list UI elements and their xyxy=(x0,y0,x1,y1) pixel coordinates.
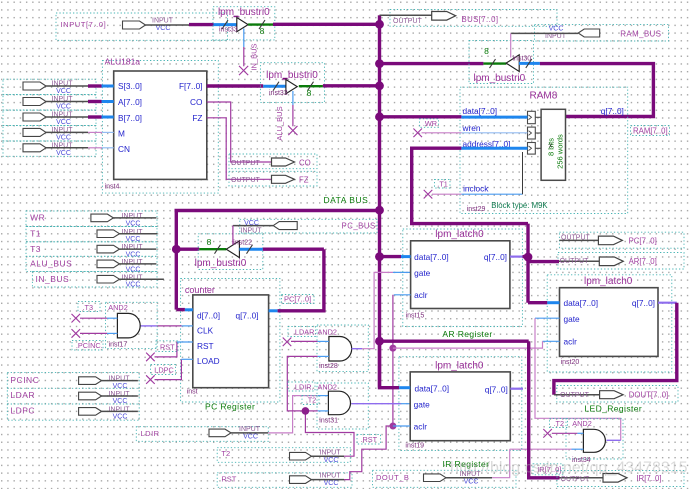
svg-text:gate: gate xyxy=(414,268,431,278)
svg-text:Block type: M9K: Block type: M9K xyxy=(491,201,548,210)
svg-text:gate: gate xyxy=(414,400,431,410)
input pin ALU row 3 xyxy=(3,110,96,126)
wire T2 to junction xyxy=(305,411,354,456)
wire inst34 input from DOUT_B xyxy=(510,448,584,450)
svg-text:q[7..0]: q[7..0] xyxy=(484,252,507,262)
svg-text:DOUT_B: DOUT_B xyxy=(376,473,409,482)
bus DATA BUS horizontal xyxy=(175,195,380,210)
latch block lpm_latch0 inst20 LED register xyxy=(547,275,672,372)
wire inst22 output 8-bit xyxy=(176,237,226,254)
wire DOUT_B to inst34 xyxy=(492,449,510,478)
wire inst34 output xyxy=(606,439,620,441)
bus DATA BUS vertical left xyxy=(175,211,178,310)
svg-text:.T2: .T2 xyxy=(306,396,317,405)
input pin T2 xyxy=(217,448,350,464)
ALU block ALU181a inst4 xyxy=(102,57,218,194)
svg-text:ALU181a: ALU181a xyxy=(105,57,141,67)
node junction T2 xyxy=(302,407,310,415)
wire LDIR to inst31 xyxy=(268,396,328,433)
svg-text:OUTPUT: OUTPUT xyxy=(231,177,261,184)
output pin PC[7..0] xyxy=(559,232,684,248)
wire bustri inst33 enable with IN_BUS label xyxy=(239,29,259,76)
node junction top bus xyxy=(375,20,384,29)
wire counter q to PC_BUS xyxy=(269,249,324,311)
svg-text:8: 8 xyxy=(307,88,312,98)
svg-text:q[7..0]: q[7..0] xyxy=(236,310,259,320)
svg-text:FZ: FZ xyxy=(299,176,309,185)
svg-text:OUTPUT: OUTPUT xyxy=(560,392,590,399)
svg-text:aclr: aclr xyxy=(414,290,428,300)
svg-text:CO: CO xyxy=(299,158,311,167)
svg-text:aclr: aclr xyxy=(414,422,428,432)
wire inst31 input T2 xyxy=(305,410,328,412)
svg-text:data[7..0]: data[7..0] xyxy=(415,384,450,394)
svg-text:ALU_BUS: ALU_BUS xyxy=(275,106,284,140)
counter block PC register inst xyxy=(181,279,280,403)
node junction DATA BUS xyxy=(375,206,384,215)
wire inst22 input from PC_BUS xyxy=(239,245,324,254)
wire RST vertical net xyxy=(392,295,394,426)
svg-text:T3: T3 xyxy=(30,244,41,254)
node junction AR data xyxy=(375,252,384,261)
output pin CO xyxy=(229,154,317,169)
svg-text:VCC: VCC xyxy=(56,134,71,141)
svg-text:lpm_bustri0: lpm_bustri0 xyxy=(195,258,247,269)
input pin T3 xyxy=(26,242,157,259)
wire IR data from bus xyxy=(380,341,411,388)
svg-text:lpm_bustri0: lpm_bustri0 xyxy=(474,73,526,84)
wire ALU input row 5 xyxy=(88,147,114,149)
svg-text:OUTPUT: OUTPUT xyxy=(560,258,590,265)
AND gate AND2 inst28 xyxy=(288,325,368,372)
svg-text:LDPC: LDPC xyxy=(10,406,35,416)
svg-text:inst4: inst4 xyxy=(105,184,120,191)
wire bustri2 enable with ALU_BUS label xyxy=(275,91,298,141)
svg-text:PCINC: PCINC xyxy=(10,375,39,385)
svg-text:IN_BUS: IN_BUS xyxy=(250,43,259,70)
svg-text:INPUT: INPUT xyxy=(122,229,144,236)
svg-text:VCC: VCC xyxy=(113,383,128,390)
svg-text:VCC: VCC xyxy=(126,266,141,273)
svg-text:counter: counter xyxy=(185,285,215,295)
wire bustri3 input blue xyxy=(519,59,540,68)
svg-text:VCC: VCC xyxy=(126,282,141,289)
bus wire to junction xyxy=(273,23,380,26)
svg-text:OUTPUT: OUTPUT xyxy=(393,18,423,25)
svg-text:A[7..0]: A[7..0] xyxy=(118,97,142,107)
svg-text:PC Register: PC Register xyxy=(205,401,255,411)
svg-text:RST: RST xyxy=(160,343,175,352)
bus AR output vertical xyxy=(526,224,529,303)
bus wire bustri3 to RAM q xyxy=(540,64,654,117)
svg-text:inst28: inst28 xyxy=(319,363,338,370)
tri-state buffer lpm_bustri0 inst33 xyxy=(213,7,275,40)
latch block lpm_latch0 inst19 IR register xyxy=(399,357,522,451)
wire bustri3 enable xyxy=(510,33,512,57)
wire wren with WR label xyxy=(413,119,527,137)
AND gate AND2 inst31 xyxy=(288,382,368,429)
input pin RST xyxy=(217,473,352,488)
wire inclock with T1 label xyxy=(424,152,523,199)
svg-text:INPUT: INPUT xyxy=(122,213,144,220)
svg-text:PC[7..0]: PC[7..0] xyxy=(284,294,311,303)
node junction RAM data xyxy=(375,112,384,121)
svg-text:lpm_latch0: lpm_latch0 xyxy=(435,361,484,372)
svg-text:RAM[7..0]: RAM[7..0] xyxy=(633,126,668,135)
svg-text:F[7..0]: F[7..0] xyxy=(179,81,203,91)
wire LED aclr from RST net xyxy=(393,341,560,348)
wire counter LOAD with LDPC label xyxy=(146,359,193,384)
label PC Register xyxy=(205,401,255,411)
svg-text:inclock: inclock xyxy=(463,183,489,193)
output pin BUS[7..0] xyxy=(380,10,558,27)
svg-text:.PCINC.: .PCINC. xyxy=(76,341,103,350)
wire bustri inst33 output 8-bit xyxy=(248,20,273,36)
svg-text:RST: RST xyxy=(221,474,236,483)
input pin IN_BUS xyxy=(32,272,164,289)
svg-text:LDIR: LDIR xyxy=(141,429,160,438)
svg-text:inst19: inst19 xyxy=(405,443,424,450)
svg-text:VCC: VCC xyxy=(324,457,339,464)
wire inst28 input LDAR xyxy=(283,338,329,347)
wire AR q to junction xyxy=(510,256,528,258)
wire bustri2 output 8-bit xyxy=(299,82,380,98)
svg-text:inst15: inst15 xyxy=(406,313,425,320)
svg-text:INPUT: INPUT xyxy=(320,449,342,456)
svg-text:T2: T2 xyxy=(221,449,230,458)
svg-text:VCC: VCC xyxy=(464,478,479,485)
svg-text:LDPC: LDPC xyxy=(154,365,173,374)
svg-text:AR[7..0]: AR[7..0] xyxy=(629,257,657,266)
bus label IR[7..0] xyxy=(533,464,563,475)
svg-text:8: 8 xyxy=(260,26,265,36)
latch block lpm_latch0 inst15 AR register xyxy=(403,229,523,327)
svg-text:.T2: .T2 xyxy=(554,419,565,428)
svg-text:inst29: inst29 xyxy=(467,206,486,213)
tri-state buffer lpm_bustri0 inst33b xyxy=(260,63,324,103)
svg-text:FZ: FZ xyxy=(192,113,202,123)
label AR Register xyxy=(442,329,492,339)
input pin INPUT[7..0] xyxy=(56,13,228,40)
svg-text:inst: inst xyxy=(187,388,198,395)
svg-text:inst22: inst22 xyxy=(233,239,252,246)
svg-text:PC[7..0]: PC[7..0] xyxy=(629,236,657,245)
node junction inst22 output xyxy=(172,245,181,254)
wire ALU FZ to output pin xyxy=(207,118,272,180)
svg-text:VCC: VCC xyxy=(56,150,71,157)
svg-text:lpm_bustri0: lpm_bustri0 xyxy=(266,70,318,81)
svg-text:VCC: VCC xyxy=(126,252,141,259)
svg-text:VCC: VCC xyxy=(126,220,141,227)
wire ALU F[7..0] to bustri xyxy=(207,82,286,91)
input pin ALU row 2 xyxy=(3,95,96,111)
svg-text:INPUT: INPUT xyxy=(122,259,144,266)
svg-text:x: x xyxy=(549,143,553,150)
node junction AR q xyxy=(524,253,533,262)
svg-text:256 words: 256 words xyxy=(556,134,565,169)
svg-text:INPUT: INPUT xyxy=(239,426,261,433)
wire RAM data from bus xyxy=(380,115,528,119)
wire ALU CO to output pin xyxy=(207,102,272,162)
svg-text:q[7..0]: q[7..0] xyxy=(601,106,624,116)
svg-text:INPUT: INPUT xyxy=(109,391,131,398)
svg-text:data[7..0]: data[7..0] xyxy=(463,106,498,116)
svg-text:.T3: .T3 xyxy=(83,303,94,312)
svg-text:aclr: aclr xyxy=(564,337,578,347)
svg-text:INPUT: INPUT xyxy=(122,274,144,281)
bus wire to bustri3 xyxy=(380,46,507,68)
svg-text:VCC: VCC xyxy=(156,25,171,32)
svg-text:LOAD: LOAD xyxy=(197,356,220,366)
svg-text:d[7..0]: d[7..0] xyxy=(197,310,220,320)
input pin ALU row 4 xyxy=(3,126,96,142)
svg-text:PC_BUS: PC_BUS xyxy=(342,222,376,231)
svg-text:inst33: inst33 xyxy=(269,90,288,97)
svg-text:INPUT: INPUT xyxy=(152,18,174,25)
output pin DOUT[7..0] xyxy=(554,386,678,403)
svg-text:data[7..0]: data[7..0] xyxy=(414,252,449,262)
svg-text:DOUT[7..0]: DOUT[7..0] xyxy=(629,391,668,400)
wire counter d input from DATA BUS xyxy=(176,308,193,312)
svg-text:OUTPUT: OUTPUT xyxy=(231,160,261,167)
svg-text:lpm_latch0: lpm_latch0 xyxy=(435,229,484,240)
svg-text:INPUT: INPUT xyxy=(122,244,144,251)
wire RST staircase to aclr junction xyxy=(344,426,393,480)
svg-text:VCC: VCC xyxy=(126,236,141,243)
svg-text:ALU_BUS: ALU_BUS xyxy=(30,259,72,269)
wire INPUT pin to bustri inst33 xyxy=(189,20,237,29)
input pin VCC PC_BUS xyxy=(233,219,377,234)
svg-text:8: 8 xyxy=(207,237,212,247)
wire inst17 input PCINC xyxy=(72,329,118,338)
svg-text:inst30: inst30 xyxy=(513,55,532,62)
svg-text:lpm_latch0: lpm_latch0 xyxy=(584,276,633,287)
wire LED gate from inst34 xyxy=(535,318,621,440)
input pin VCC RAM_BUS xyxy=(511,25,669,41)
svg-text:VCC: VCC xyxy=(56,88,71,95)
svg-text:.LDIR.: .LDIR. xyxy=(293,383,314,392)
wire counter RST with RST label xyxy=(146,341,193,361)
svg-text:AND2: AND2 xyxy=(318,383,337,392)
wire inst34 input T2 xyxy=(543,429,583,438)
svg-text:inst33: inst33 xyxy=(219,27,238,34)
svg-text:VCC: VCC xyxy=(113,414,128,421)
bus LED q to DOUT xyxy=(554,303,677,395)
svg-text:data[7..0]: data[7..0] xyxy=(564,298,599,308)
svg-text:INPUT: INPUT xyxy=(109,376,131,383)
svg-text:AND2: AND2 xyxy=(572,419,591,428)
label IR Register xyxy=(443,459,490,469)
RAM block RAM8 inst29 xyxy=(460,87,628,213)
svg-text:CLK: CLK xyxy=(197,326,214,336)
wire inst31 output to IR gate xyxy=(351,403,410,405)
svg-text:AND2: AND2 xyxy=(108,303,127,312)
svg-text:VCC: VCC xyxy=(549,25,564,32)
node junction RST branch xyxy=(389,345,396,352)
svg-text:q[7..0]: q[7..0] xyxy=(485,384,508,394)
svg-text:WR: WR xyxy=(30,213,45,223)
svg-text:RST: RST xyxy=(197,341,214,351)
bus label PC[7..0] xyxy=(282,294,315,303)
svg-text:.LDAR.: .LDAR. xyxy=(293,328,317,337)
wire inst22 enable xyxy=(232,226,234,245)
svg-text:AR Register: AR Register xyxy=(442,329,492,339)
input pin ALU row 5 xyxy=(3,141,96,157)
label LED_Register xyxy=(584,404,642,414)
node junction bus y63 xyxy=(375,59,384,68)
svg-text:T1: T1 xyxy=(30,229,41,239)
wire counter CLK from inst17 xyxy=(141,325,193,327)
wire AR data from bus xyxy=(380,255,411,258)
input pin ALU_BUS xyxy=(26,256,157,273)
AND gate AND2 inst17 xyxy=(72,302,157,351)
svg-text:INPUT[7..0]: INPUT[7..0] xyxy=(61,20,107,29)
vertical data bus xyxy=(378,24,381,387)
input pin group PCINC LDAR LDPC xyxy=(7,373,139,421)
svg-text:lpm_bustri0: lpm_bustri0 xyxy=(218,7,270,18)
svg-text:wren: wren xyxy=(462,123,481,133)
wire IR aclr xyxy=(393,425,410,427)
svg-text:AND2: AND2 xyxy=(318,328,337,337)
node junction bus IR xyxy=(375,337,384,346)
svg-text:8: 8 xyxy=(484,46,489,56)
output pin FZ xyxy=(229,171,317,186)
tri-state buffer lpm_bustri0 inst22 xyxy=(195,234,263,270)
svg-text:RAM8: RAM8 xyxy=(530,91,558,102)
svg-text:LED_Register: LED_Register xyxy=(584,404,642,414)
wire ALU input row 1 xyxy=(88,84,114,87)
input pin LDIR xyxy=(136,426,268,441)
wire LED data from AR junction xyxy=(528,301,560,304)
svg-text:.RST: .RST xyxy=(361,435,378,444)
AND gate AND2 inst34 xyxy=(550,419,624,464)
svg-text:INPUT: INPUT xyxy=(241,227,263,234)
wire inst28 input T2 net xyxy=(287,356,329,411)
svg-text:VCC: VCC xyxy=(243,434,258,441)
svg-text:BUS[7..0]: BUS[7..0] xyxy=(462,15,499,24)
bus label RAM[7..0] xyxy=(631,126,670,136)
input pin ALU row 1 xyxy=(3,79,96,95)
wire RAM address from AR xyxy=(412,148,528,223)
input pin DOUT_B xyxy=(373,470,517,487)
wire inst28 output to AR gate xyxy=(352,272,411,348)
svg-text:VCC: VCC xyxy=(324,480,339,487)
watermark xyxy=(450,460,688,477)
node junction bustri2 output xyxy=(375,81,384,90)
wire ALU input row 3 xyxy=(88,115,114,118)
svg-text:OUTPUT: OUTPUT xyxy=(561,476,591,483)
svg-text:VCC: VCC xyxy=(56,119,71,126)
svg-text:OUTPUT: OUTPUT xyxy=(561,234,591,241)
svg-text:RAM_BUS: RAM_BUS xyxy=(620,30,661,39)
svg-text:gate: gate xyxy=(564,314,581,324)
node junction RST aclr IR xyxy=(389,423,396,430)
input pin WR xyxy=(26,211,157,227)
svg-text:LDAR: LDAR xyxy=(10,390,35,400)
svg-text:q[7..0]: q[7..0] xyxy=(632,298,655,308)
wire AR aclr xyxy=(394,294,411,296)
svg-text:DATA BUS: DATA BUS xyxy=(324,195,369,205)
svg-text:inst31: inst31 xyxy=(319,418,338,425)
svg-text:inst17: inst17 xyxy=(109,341,128,348)
svg-text:B[7..0]: B[7..0] xyxy=(118,113,142,123)
svg-text:IN_BUS: IN_BUS xyxy=(36,274,70,284)
svg-text:CN: CN xyxy=(118,144,130,154)
svg-text:INPUT: INPUT xyxy=(320,473,342,480)
wire ALU input row 4 xyxy=(88,131,114,133)
svg-text:VCC: VCC xyxy=(56,104,71,111)
svg-text:S[3..0]: S[3..0] xyxy=(118,81,142,91)
tri-state buffer lpm_bustri0 inst30 xyxy=(469,41,534,84)
output pin IR[7..0] xyxy=(557,471,684,487)
svg-text:M: M xyxy=(118,129,125,139)
bus IR q feedback xyxy=(380,341,560,478)
wire ALU input row 2 xyxy=(88,100,114,103)
wire inst17 input T3 xyxy=(72,314,118,323)
svg-text:INPUT: INPUT xyxy=(109,406,131,413)
input pin T1 xyxy=(26,227,157,244)
svg-text:http://blog.csdn.net/qq_434783: http://blog.csdn.net/qq_43478315 xyxy=(450,460,688,477)
svg-text:.WR: .WR xyxy=(423,119,437,128)
svg-text:.T1: .T1 xyxy=(437,180,448,189)
output pin AR[7..0] xyxy=(528,253,684,270)
svg-text:inst20: inst20 xyxy=(561,359,580,366)
svg-text:CO: CO xyxy=(190,97,203,107)
